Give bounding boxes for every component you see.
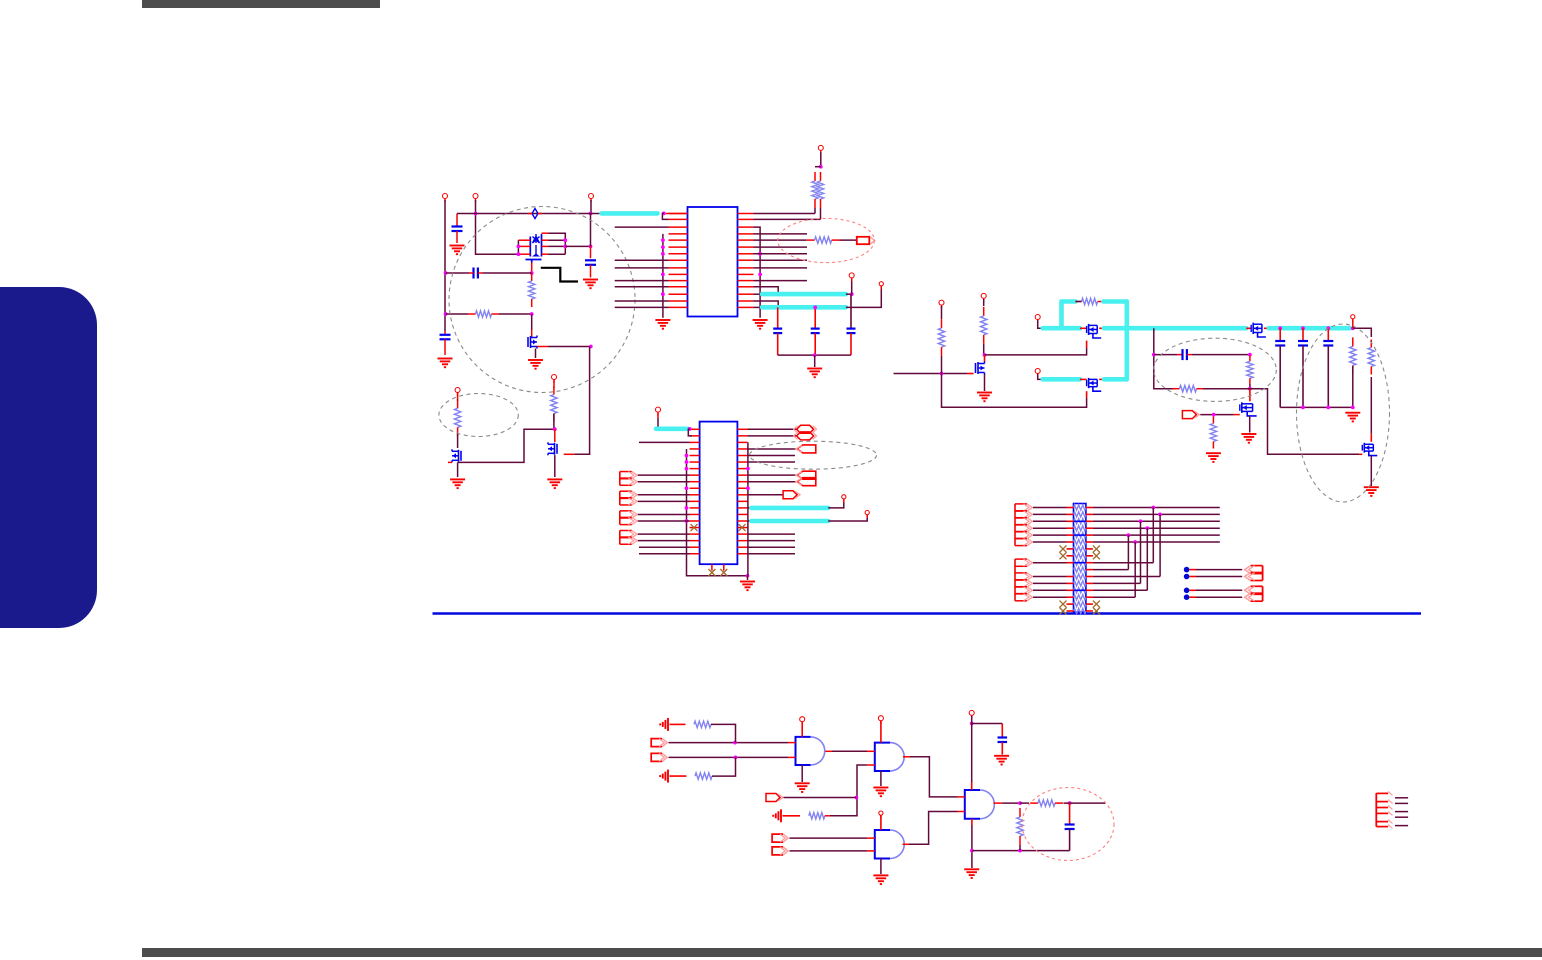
U2 left pin 1 bbox=[690, 428, 700, 430]
left navy tab bbox=[0, 287, 97, 628]
highlighted net bbox=[751, 506, 828, 511]
junction bbox=[661, 273, 665, 277]
ground bbox=[528, 360, 543, 369]
off-page connector OUT1 bbox=[857, 237, 875, 244]
stub bbox=[843, 499, 845, 501]
stub bbox=[1067, 534, 1074, 536]
U3C vcc bbox=[880, 815, 882, 830]
U2 right pin 20 bbox=[737, 428, 747, 430]
stub bbox=[1086, 576, 1093, 578]
no-connect X bbox=[720, 569, 727, 576]
wire bbox=[754, 280, 808, 282]
wire bbox=[548, 245, 565, 247]
wire bbox=[814, 208, 816, 214]
wire Q1 top box bbox=[548, 233, 565, 254]
no-connect X bbox=[1060, 608, 1067, 615]
ground bbox=[873, 875, 888, 884]
wire bbox=[985, 348, 1087, 355]
wire bbox=[1033, 596, 1067, 598]
junction bbox=[444, 312, 448, 316]
stub bbox=[1067, 603, 1074, 605]
wire bbox=[754, 246, 808, 248]
no-connect X bbox=[1093, 545, 1100, 552]
capacitor C10 lead2 bbox=[1327, 346, 1329, 408]
wire bbox=[851, 281, 853, 294]
connector group J6 bbox=[1015, 559, 1033, 601]
U1 left pin 8 bbox=[669, 259, 688, 261]
ground bbox=[1241, 434, 1256, 443]
off-page connector bbox=[796, 478, 816, 486]
capacitor C7 lead2 bbox=[850, 333, 852, 355]
U2 right pin 21 bbox=[737, 435, 747, 437]
U2 left pin 4 bbox=[690, 448, 700, 450]
junction bbox=[688, 427, 692, 431]
U1 left pin 13 bbox=[669, 293, 688, 295]
wire bbox=[748, 546, 796, 548]
wire bbox=[1093, 596, 1135, 598]
U2 right pin 26 bbox=[737, 468, 747, 470]
U1 right pin 17 bbox=[738, 218, 754, 220]
wire bbox=[748, 533, 796, 535]
capacitor C13 lead bbox=[1069, 803, 1071, 824]
ground bbox=[807, 369, 822, 378]
junction bbox=[940, 372, 944, 376]
highlighted net bbox=[1269, 326, 1350, 331]
U2 right pin 39 bbox=[737, 553, 747, 555]
wire bbox=[638, 540, 690, 542]
transistor Q5 bbox=[976, 362, 985, 375]
wire bbox=[1020, 802, 1029, 804]
wire bbox=[1093, 589, 1147, 591]
ground bbox=[1364, 487, 1379, 496]
wire bbox=[748, 494, 784, 496]
U1 right pin 24 bbox=[738, 267, 754, 269]
junction bbox=[1351, 406, 1355, 410]
no-connect X bbox=[1060, 601, 1067, 608]
highlighted net vertical bbox=[1125, 302, 1130, 380]
Q4 source bbox=[554, 455, 556, 477]
wire bbox=[815, 166, 821, 168]
U2 right pin 35 bbox=[737, 527, 747, 529]
stub bbox=[1086, 610, 1093, 612]
connector group J2 bbox=[620, 491, 638, 505]
Q1 stub l1 bbox=[518, 239, 530, 241]
stub bbox=[1187, 354, 1192, 356]
connector group J4 bbox=[620, 531, 638, 545]
ground bbox=[964, 869, 979, 878]
capacitor C9 bbox=[1298, 341, 1308, 346]
U1 right pin 25 bbox=[738, 273, 754, 275]
dashed ellipse region bbox=[750, 441, 877, 469]
capacitor C13 bbox=[1065, 825, 1075, 830]
junction bbox=[1326, 326, 1330, 330]
wire bbox=[1395, 802, 1408, 804]
junction bbox=[685, 506, 689, 510]
wire bbox=[1038, 374, 1043, 379]
wire bbox=[1196, 596, 1242, 598]
wire bbox=[1075, 301, 1081, 303]
junction bbox=[563, 238, 567, 242]
stub bbox=[867, 764, 875, 766]
stub bbox=[1177, 354, 1183, 356]
U1 right pin 26 bbox=[738, 280, 754, 282]
resistor R19 bbox=[1030, 800, 1063, 806]
U1 right pin 19 bbox=[738, 233, 754, 235]
U2 right pin 28 bbox=[737, 481, 747, 483]
wire crossover bbox=[1127, 535, 1129, 570]
junction bbox=[685, 467, 689, 471]
stub bbox=[670, 723, 686, 725]
U2 right pin 22 bbox=[737, 441, 747, 443]
junction bbox=[662, 212, 666, 216]
wire bbox=[446, 272, 469, 274]
stub bbox=[971, 782, 973, 790]
wire bbox=[1154, 354, 1177, 356]
stub bbox=[1086, 520, 1093, 522]
junction bbox=[746, 467, 750, 471]
U2 left pin 17 bbox=[690, 533, 700, 535]
wire bbox=[754, 287, 779, 294]
stub bbox=[1067, 513, 1074, 515]
stub bbox=[1189, 576, 1196, 578]
U2 left pin 3 bbox=[690, 441, 700, 443]
stub bbox=[670, 775, 687, 777]
highlighted net bbox=[656, 426, 688, 431]
power pin P20 bbox=[969, 710, 974, 719]
no-connect X bbox=[691, 524, 698, 531]
off-page connector IN2 bbox=[766, 794, 783, 802]
stub bbox=[1370, 434, 1372, 442]
wire bbox=[748, 435, 797, 437]
stub bbox=[1249, 389, 1251, 402]
ground bbox=[583, 280, 598, 289]
resistor R20 bbox=[1017, 808, 1023, 845]
junction bbox=[530, 271, 534, 275]
resistor R8 bbox=[938, 319, 944, 356]
wire crossover bbox=[1146, 528, 1148, 590]
power pin P14 bbox=[656, 407, 661, 416]
Q1 stub r1 bbox=[542, 239, 549, 241]
wire bbox=[910, 757, 958, 797]
U2 bottom pin2 bbox=[723, 564, 725, 570]
stub bbox=[867, 837, 875, 839]
U1 left pin 12 bbox=[669, 286, 688, 288]
AND gate U3C bbox=[875, 830, 904, 859]
wire bbox=[615, 286, 669, 288]
junction bbox=[1018, 801, 1022, 805]
cap stub bbox=[469, 272, 474, 274]
power flag bbox=[660, 770, 668, 783]
wire bbox=[638, 474, 690, 476]
U3A vcc bbox=[801, 722, 803, 737]
wire bbox=[1196, 569, 1242, 571]
U2 left pin 6 bbox=[690, 461, 700, 463]
U1 right pin 28 bbox=[738, 293, 754, 295]
transistor Q9 bbox=[1240, 402, 1257, 416]
wire bbox=[820, 208, 822, 219]
connector group J3 bbox=[620, 511, 638, 525]
U1 right pin 20 bbox=[738, 239, 754, 241]
junction bbox=[1326, 406, 1330, 410]
wire U2 right bus bbox=[747, 442, 749, 575]
capacitor C7 lead bbox=[850, 294, 852, 328]
highlighted net segment bbox=[602, 211, 658, 216]
junction bbox=[589, 245, 593, 249]
resistor R13 bbox=[1247, 355, 1253, 384]
stub bbox=[867, 850, 875, 852]
resistor R5 bbox=[812, 172, 818, 208]
wire bbox=[754, 253, 808, 255]
stub bbox=[1246, 327, 1251, 329]
wire bbox=[446, 313, 468, 315]
AND gate U3B bbox=[875, 743, 904, 771]
junction bbox=[589, 345, 593, 349]
wire bbox=[828, 501, 844, 508]
transistor Q1 pair bbox=[526, 234, 542, 263]
capacitor C9 lead bbox=[1302, 328, 1304, 341]
stub bbox=[1067, 589, 1074, 591]
stub bbox=[958, 811, 965, 813]
wire bbox=[1033, 541, 1067, 543]
capacitor C10 lead bbox=[1327, 328, 1329, 341]
power pin P11 bbox=[1035, 315, 1040, 324]
junction bbox=[1158, 513, 1162, 517]
U2 right pin 29 bbox=[737, 487, 747, 489]
resistor R17 bbox=[695, 773, 712, 779]
connector group J8 bbox=[1245, 586, 1263, 601]
wire bbox=[754, 218, 821, 220]
U1 right pin 22 bbox=[738, 253, 754, 255]
junction bbox=[661, 238, 665, 242]
power pin P15 bbox=[842, 495, 846, 503]
resistor R15 bbox=[1210, 417, 1216, 449]
junction bbox=[685, 460, 689, 464]
junction bbox=[1133, 540, 1137, 544]
U2 right pin 37 bbox=[737, 540, 747, 542]
wire bbox=[830, 765, 867, 816]
junction bbox=[746, 574, 750, 578]
wire bbox=[638, 513, 690, 515]
capacitor C8 bbox=[1275, 341, 1285, 346]
wire bbox=[983, 344, 985, 355]
wire bbox=[983, 299, 985, 306]
highlighted net loop bbox=[1062, 299, 1076, 304]
resistor R1 bbox=[468, 311, 499, 317]
power pin P3 bbox=[589, 194, 594, 203]
wire bbox=[639, 441, 690, 443]
junction bbox=[758, 252, 762, 256]
no-connect X bbox=[708, 569, 715, 576]
U2 left pin 2 bbox=[690, 435, 700, 437]
wire bbox=[711, 724, 736, 742]
stub bbox=[1099, 327, 1104, 329]
stub bbox=[788, 756, 796, 758]
off-page connector bbox=[796, 445, 816, 453]
wire bbox=[656, 418, 658, 429]
junction bbox=[970, 849, 974, 853]
junction bbox=[1151, 506, 1155, 510]
Q2 stub drain bbox=[537, 346, 548, 348]
ground bbox=[438, 359, 453, 368]
stub bbox=[1086, 589, 1093, 591]
highlighted net bbox=[762, 305, 846, 310]
junction bbox=[685, 486, 689, 490]
wire bbox=[1093, 520, 1220, 522]
pin stub bbox=[666, 213, 688, 215]
connector group J9 bbox=[1376, 791, 1392, 828]
Q1 stub r0 bbox=[542, 232, 549, 234]
U1 left pin 2 bbox=[669, 218, 688, 220]
wire bbox=[1395, 825, 1408, 827]
U2 left pin 10 bbox=[690, 487, 700, 489]
capacitor C11 bbox=[1183, 349, 1187, 360]
wire bbox=[840, 239, 857, 241]
highlighted net bbox=[762, 292, 846, 297]
resistor R7 bbox=[807, 237, 840, 243]
ground bbox=[1345, 413, 1360, 422]
off-page connector bbox=[794, 432, 817, 440]
U1 left pin 9 bbox=[669, 267, 688, 269]
wire bbox=[790, 850, 868, 852]
capacitor C1 lead2 bbox=[456, 231, 458, 243]
wire bbox=[1249, 384, 1251, 389]
power pin P5 bbox=[552, 375, 557, 384]
junction bbox=[1018, 849, 1022, 853]
stub bbox=[1067, 562, 1074, 564]
junction bbox=[850, 292, 854, 296]
highlighted net bbox=[1104, 326, 1246, 331]
wire bbox=[1352, 366, 1354, 407]
stub bbox=[1234, 414, 1240, 416]
transistor Q4 bbox=[548, 442, 557, 455]
U1 left pin 10 bbox=[669, 273, 688, 275]
capacitor C10 bbox=[1323, 341, 1333, 346]
highlighted net bbox=[1043, 377, 1080, 382]
U2 right pin 27 bbox=[737, 474, 747, 476]
junction bbox=[1351, 326, 1355, 330]
capacitor C4 bbox=[474, 268, 478, 279]
U1 left pin 3 bbox=[669, 226, 688, 228]
no-connect X bbox=[1060, 545, 1067, 552]
stub bbox=[1086, 548, 1093, 550]
net dot bbox=[1184, 567, 1190, 573]
Q4 out stub bbox=[564, 453, 575, 455]
wire bbox=[1196, 576, 1242, 578]
wire bbox=[638, 520, 690, 522]
junction bbox=[1212, 413, 1216, 417]
Q3 source bbox=[457, 462, 459, 477]
U2 left pin 19 bbox=[690, 546, 700, 548]
power pin P10 bbox=[981, 293, 986, 302]
off-page connector bbox=[794, 425, 817, 433]
stub bbox=[1086, 513, 1093, 515]
wire bbox=[1033, 520, 1067, 522]
power pin P18 bbox=[878, 716, 883, 725]
wire bbox=[784, 797, 857, 799]
connector group J5 bbox=[1015, 504, 1033, 546]
Q1 stub r3 bbox=[542, 253, 549, 255]
stub bbox=[1067, 548, 1074, 550]
input connector bbox=[772, 834, 788, 842]
dashed ellipse region bbox=[1154, 338, 1277, 401]
wire bbox=[615, 300, 669, 302]
stub bbox=[1067, 507, 1074, 509]
stub bbox=[1067, 527, 1074, 529]
capacitor C8 lead2 bbox=[1279, 346, 1281, 408]
U1 right pin 29 bbox=[738, 300, 754, 302]
wire bbox=[748, 455, 796, 457]
wire bbox=[971, 825, 973, 868]
wire bbox=[1033, 527, 1067, 529]
resistor pack separators bbox=[1074, 521, 1086, 590]
wire bbox=[548, 253, 565, 255]
wire bbox=[1033, 589, 1067, 591]
stub bbox=[1189, 589, 1196, 591]
capacitor C2 lead2 bbox=[444, 339, 446, 355]
power pin P6 bbox=[818, 145, 823, 154]
wire bbox=[754, 267, 808, 269]
wire bbox=[1093, 569, 1129, 571]
junction bbox=[553, 427, 557, 431]
IC U2 bbox=[700, 422, 738, 565]
stub bbox=[1086, 596, 1093, 598]
resistor pack RN1 elements bbox=[1074, 505, 1086, 614]
wire bbox=[1033, 562, 1067, 564]
wire bbox=[748, 461, 796, 463]
Q10 source bbox=[1370, 456, 1372, 486]
wire bbox=[790, 837, 868, 839]
Q5 source bbox=[984, 374, 986, 391]
stub r bbox=[825, 815, 830, 817]
wire bbox=[754, 213, 816, 215]
U2 right pin 32 bbox=[737, 507, 747, 509]
stub bbox=[554, 429, 556, 442]
junction bbox=[970, 722, 974, 726]
wire bbox=[499, 313, 532, 315]
junction bbox=[517, 245, 521, 249]
U2 right pin 23 bbox=[737, 448, 747, 450]
junction bbox=[517, 252, 521, 256]
junction bbox=[1248, 387, 1252, 391]
junction bbox=[563, 245, 567, 249]
wire bbox=[748, 448, 797, 450]
U3C gnd lead bbox=[880, 859, 882, 875]
U1 right pin 21 bbox=[738, 246, 754, 248]
stub bbox=[1086, 391, 1088, 398]
junction bbox=[1301, 326, 1305, 330]
stub bbox=[1099, 378, 1104, 380]
capacitor C1 bbox=[452, 227, 463, 232]
wire bbox=[748, 428, 797, 430]
junction bbox=[1139, 519, 1143, 523]
stub bbox=[1086, 527, 1093, 529]
power pin P19 bbox=[879, 811, 883, 819]
resistor R3 bbox=[454, 399, 460, 436]
U1 left pin 1 bbox=[669, 213, 688, 215]
wire bbox=[669, 742, 789, 744]
U3A gnd lead bbox=[801, 765, 803, 782]
stub bbox=[1086, 507, 1093, 509]
wire bbox=[971, 716, 973, 782]
wire bbox=[444, 200, 446, 331]
resistor R12 bbox=[1368, 340, 1374, 375]
Q1 stub l2 bbox=[518, 245, 530, 247]
gnd drop bbox=[747, 576, 749, 580]
U1 right pin 30 bbox=[738, 306, 754, 308]
capacitor C12 bbox=[998, 738, 1008, 743]
wire bbox=[972, 723, 1003, 725]
bead stub bbox=[528, 213, 532, 215]
